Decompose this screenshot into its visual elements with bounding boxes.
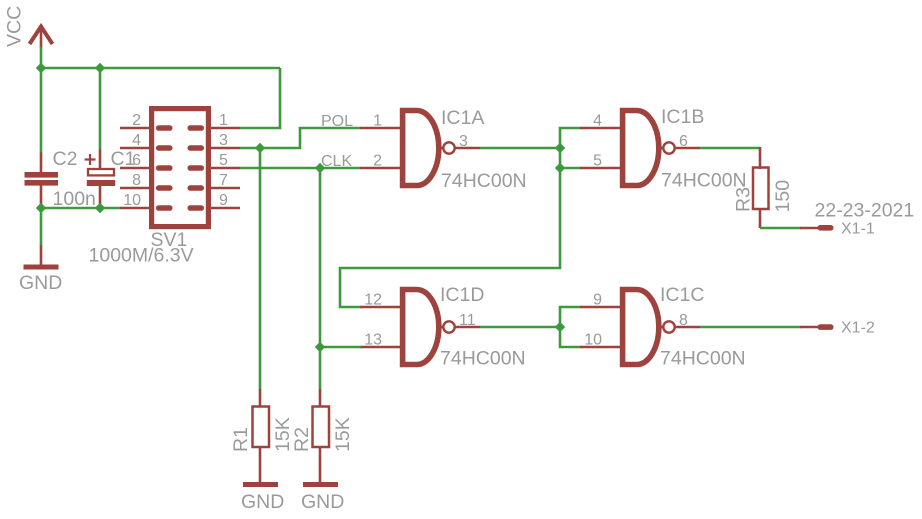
- junction at IC1B pin5 tap: [555, 163, 565, 173]
- IC1C output pin 8: [661, 321, 700, 332]
- svg-text:6: 6: [679, 133, 688, 150]
- wire IC1B output to R3: [700, 147, 760, 150]
- wire IC1A output to junction: [480, 147, 560, 150]
- ground symbol GND left: [24, 246, 59, 270]
- wire to IC1B pin5: [560, 167, 581, 170]
- svg-text:R3: R3: [733, 187, 755, 212]
- wire IC1C output to X1-2: [700, 326, 801, 329]
- svg-text:8: 8: [679, 312, 688, 329]
- power symbol VCC arrow: [30, 27, 53, 48]
- svg-text:C2: C2: [53, 148, 78, 170]
- SV1 pin 7: [211, 187, 240, 190]
- svg-text:3: 3: [459, 133, 468, 150]
- svg-text:X1-2: X1-2: [841, 320, 875, 337]
- svg-text:1: 1: [373, 113, 382, 130]
- svg-text:IC1D: IC1D: [440, 284, 484, 306]
- pin X1-2 pad: [800, 324, 834, 330]
- junction node CLK: [315, 163, 325, 173]
- capacitor C2: [25, 153, 59, 205]
- svg-text:4: 4: [593, 113, 602, 130]
- svg-text:R1: R1: [230, 427, 252, 452]
- SV1 pin 1: [211, 127, 240, 130]
- junction cap rail at C2: [36, 203, 46, 213]
- IC1C input pin 9: [580, 306, 622, 309]
- junction cap rail at C1: [95, 203, 105, 213]
- wire VCC to C2: [40, 68, 43, 154]
- wire to IC1C pin10: [560, 327, 581, 347]
- svg-text:5: 5: [219, 152, 228, 169]
- wire pin13 tap from CLK pulldown: [320, 346, 361, 349]
- IC1D input pin 12: [360, 306, 402, 309]
- svg-text:74HC00N: 74HC00N: [660, 348, 746, 370]
- resistor R1: [253, 389, 270, 482]
- junction VCC rail at C1: [95, 63, 105, 73]
- wire CLK pulldown to R2: [319, 168, 322, 390]
- svg-text:R2: R2: [291, 427, 313, 452]
- ground symbol GND under R2: [303, 482, 338, 487]
- wire SV1 pin3 to POL junction: [240, 147, 260, 150]
- wire VCC stem to rail: [40, 47, 43, 69]
- IC1A input pin 2: [360, 167, 402, 170]
- junction IC1A out: [555, 143, 565, 153]
- wire to IC1B pin4: [560, 128, 581, 148]
- svg-text:10: 10: [584, 332, 602, 349]
- svg-text:5: 5: [593, 153, 602, 170]
- op-amp-style NAND gate body IC1D: [403, 290, 439, 365]
- wire SV1 pin5 to CLK junction: [240, 167, 320, 170]
- op-amp-style NAND gate body IC1A: [403, 111, 439, 186]
- svg-text:15K: 15K: [332, 417, 354, 452]
- IC1C input pin 10: [580, 346, 622, 349]
- junction IC1D out: [555, 322, 565, 332]
- svg-text:2: 2: [373, 153, 382, 170]
- svg-text:POL: POL: [321, 113, 353, 130]
- svg-text:GND: GND: [301, 491, 344, 513]
- svg-text:IC1C: IC1C: [660, 284, 704, 306]
- SV1 pin 10: [120, 207, 149, 210]
- svg-text:13: 13: [364, 332, 382, 349]
- junction node POL: [255, 143, 265, 153]
- svg-text:3: 3: [219, 132, 228, 149]
- svg-text:SV1: SV1: [151, 229, 188, 251]
- wire R3 to X1-1: [760, 227, 801, 230]
- svg-text:IC1A: IC1A: [441, 107, 484, 129]
- IC1D output pin 11: [441, 321, 480, 332]
- wire POL jog to IC1A pin1: [260, 128, 361, 148]
- wire VCC to C1: [99, 68, 102, 151]
- SV1 pin 2: [120, 127, 149, 130]
- op-amp-style NAND gate body IC1C: [623, 290, 659, 365]
- ground symbol GND under R1: [243, 482, 278, 487]
- svg-text:GND: GND: [19, 272, 62, 294]
- junction VCC rail at C2: [36, 63, 46, 73]
- svg-text:10: 10: [123, 192, 141, 209]
- SV1 pin 5: [211, 167, 240, 170]
- svg-text:X1-1: X1-1: [841, 221, 875, 238]
- wire CLK to IC1A pin2: [320, 167, 361, 170]
- SV1 pin 4: [120, 147, 149, 150]
- SV1 pin 3: [211, 147, 240, 150]
- svg-text:VCC: VCC: [4, 6, 26, 47]
- IC1A output pin 3: [441, 142, 480, 153]
- svg-text:74HC00N: 74HC00N: [440, 348, 526, 370]
- resistor R2: [313, 389, 330, 482]
- capacitor C1 polarized: [85, 150, 116, 205]
- wire caps to SV1 pin 10: [41, 207, 121, 210]
- wire VCC rail horizontal: [41, 67, 280, 70]
- svg-text:11: 11: [459, 312, 476, 329]
- wire feedback to IC1D pin12: [340, 148, 560, 307]
- svg-text:7: 7: [219, 172, 228, 189]
- IC1D input pin 13: [360, 346, 402, 349]
- pin X1-1 pad: [800, 225, 834, 231]
- svg-text:8: 8: [132, 172, 141, 189]
- IC1B input pin 4: [580, 127, 622, 130]
- wire IC1D output to junction: [480, 326, 560, 329]
- op-amp-style NAND gate body IC1B: [623, 111, 659, 186]
- SV1 pin 8: [120, 187, 149, 190]
- svg-text:12: 12: [364, 292, 382, 309]
- SV1 pin 6: [120, 167, 149, 170]
- resistor R3: [753, 147, 769, 228]
- svg-text:150: 150: [772, 180, 794, 213]
- IC1B output pin 6: [661, 142, 700, 153]
- svg-text:9: 9: [219, 192, 228, 209]
- svg-text:CLK: CLK: [321, 153, 352, 170]
- svg-text:IC1B: IC1B: [661, 106, 704, 128]
- svg-text:2: 2: [132, 112, 141, 129]
- svg-text:GND: GND: [241, 491, 284, 513]
- SV1 pin 9: [211, 207, 240, 210]
- connector SV1 body: [152, 109, 209, 227]
- wire POL pulldown to R1: [259, 148, 262, 390]
- wire to IC1C pin9: [560, 307, 581, 327]
- svg-text:74HC00N: 74HC00N: [441, 170, 527, 192]
- IC1A input pin 1: [360, 127, 402, 130]
- IC1B input pin 5: [580, 167, 622, 170]
- wire VCC rail drop to SV1 pin 1: [240, 68, 280, 128]
- svg-text:22-23-2021: 22-23-2021: [815, 200, 915, 222]
- junction CLK pulldown at IC1D pin13: [315, 342, 325, 352]
- svg-text:1: 1: [219, 112, 228, 129]
- svg-text:6: 6: [132, 152, 141, 169]
- svg-text:4: 4: [132, 132, 141, 149]
- svg-text:9: 9: [593, 292, 602, 309]
- wire C2 rail to ground: [40, 208, 43, 247]
